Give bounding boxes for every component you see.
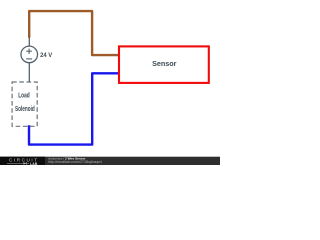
footer attribution bar xyxy=(0,157,220,165)
label Load xyxy=(18,91,30,99)
svg-text:Solenoid: Solenoid xyxy=(15,107,35,114)
svg-text:24 V: 24 V xyxy=(40,52,53,59)
wire: blue net from Load bottom to Sensor pin 2 xyxy=(29,73,120,144)
label Sensor xyxy=(152,59,176,68)
footer line 1: dontomics / 2 Wire Sensor xyxy=(48,157,86,161)
CircuitLab logo xyxy=(0,157,45,166)
svg-text:LAB: LAB xyxy=(30,162,38,165)
svg-text:Sensor: Sensor xyxy=(152,59,176,68)
sensor box xyxy=(119,46,209,83)
value label 24 V xyxy=(40,52,53,59)
svg-text:http://circuitlab.com/c/2743kq: http://circuitlab.com/c/2743kq6usqe4 xyxy=(48,160,102,164)
voltage source V1 xyxy=(21,46,38,63)
wire: V1 bottom lead to Load top terminal xyxy=(28,63,30,82)
footer line 2: url xyxy=(48,160,102,164)
wire: V1 top lead xyxy=(28,37,30,45)
svg-text:Load: Load xyxy=(18,91,30,99)
load solenoid subcircuit box (dashed) xyxy=(12,82,37,126)
label Solenoid xyxy=(15,107,35,114)
wire: brown net from V1 top to Sensor pin 1 xyxy=(29,11,119,55)
